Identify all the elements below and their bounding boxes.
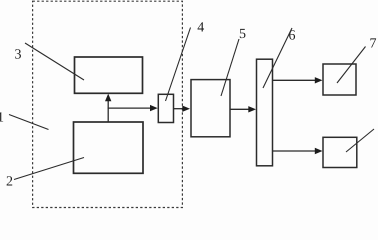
block 8: lower right block (label cut off at image edge) — [323, 137, 357, 167]
svg-text:2: 2 — [6, 175, 13, 190]
leader line for label 5 — [221, 39, 239, 96]
leader line for label 3 — [25, 43, 84, 80]
wire: block 6 to lower right block (arrow right) — [273, 148, 323, 154]
wire: block 4 to block 5 (arrow right) — [174, 106, 191, 112]
wire: block 6 to block 7 (arrow right) — [273, 77, 323, 83]
svg-text:7: 7 — [370, 37, 377, 52]
wire: block 2 to block 3 (vertical, arrow up) — [105, 94, 111, 122]
leader line for label 7 — [337, 47, 366, 84]
leader line for label 2 — [14, 158, 84, 180]
leader line for lower right block — [346, 129, 374, 152]
leader line for label 4 — [166, 28, 191, 102]
block 2 — [74, 122, 144, 173]
svg-text:6: 6 — [289, 28, 296, 43]
block 5 — [191, 80, 230, 137]
block 4 — [158, 94, 173, 122]
block 6 — [257, 59, 273, 166]
block 7 — [323, 64, 356, 95]
leader line for label 1 — [9, 115, 49, 130]
wire: block 5 to block 6 (arrow right) — [230, 106, 256, 112]
svg-text:3: 3 — [15, 47, 22, 62]
block 3 — [75, 57, 143, 93]
wire: junction to block 4 (horizontal, arrow right) — [108, 105, 158, 111]
svg-text:4: 4 — [197, 21, 204, 36]
block 1: dashed enclosure — [33, 1, 183, 207]
svg-text:1: 1 — [0, 111, 4, 126]
leader line for label 6 — [263, 28, 292, 88]
svg-text:5: 5 — [239, 27, 246, 42]
